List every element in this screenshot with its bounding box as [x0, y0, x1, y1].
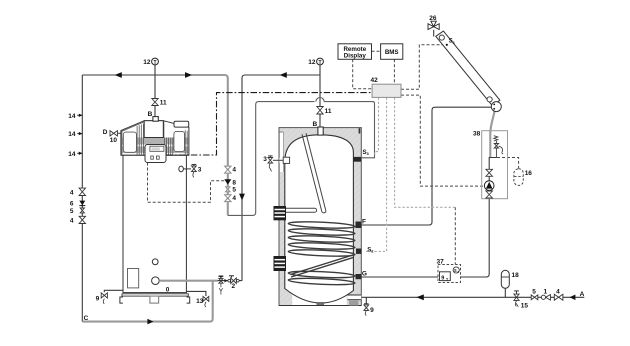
svg-text:14: 14 [68, 151, 76, 158]
svg-text:T: T [153, 60, 156, 66]
svg-text:4: 4 [70, 217, 74, 224]
svg-text:4: 4 [232, 166, 236, 173]
svg-text:8: 8 [232, 179, 236, 186]
svg-text:15: 15 [521, 303, 529, 310]
svg-text:26: 26 [429, 15, 437, 22]
svg-text:B: B [148, 111, 153, 118]
svg-text:37: 37 [437, 258, 445, 265]
svg-text:38: 38 [473, 130, 481, 137]
svg-text:5: 5 [232, 187, 236, 194]
svg-text:2: 2 [231, 283, 235, 290]
svg-text:14: 14 [68, 113, 76, 120]
svg-text:G: G [362, 270, 367, 277]
svg-text:11: 11 [325, 108, 332, 115]
svg-text:Display: Display [344, 53, 367, 60]
svg-text:6: 6 [70, 200, 74, 207]
svg-text:T: T [318, 60, 321, 66]
svg-text:1: 1 [543, 288, 547, 295]
svg-text:4: 4 [232, 195, 236, 202]
svg-text:D: D [103, 129, 108, 136]
svg-text:3: 3 [198, 166, 202, 173]
svg-text:5: 5 [70, 208, 74, 215]
svg-text:9: 9 [441, 275, 444, 281]
svg-text:0: 0 [166, 287, 170, 294]
svg-text:10: 10 [110, 137, 118, 144]
svg-text:14: 14 [68, 131, 76, 138]
svg-text:BMS: BMS [385, 49, 399, 56]
svg-text:4: 4 [556, 288, 560, 295]
svg-text:9: 9 [96, 296, 100, 303]
svg-text:4: 4 [70, 189, 74, 196]
svg-text:13: 13 [196, 298, 204, 305]
svg-text:3: 3 [263, 156, 267, 163]
svg-text:F: F [362, 218, 366, 225]
svg-text:A: A [580, 291, 585, 298]
svg-text:16: 16 [525, 170, 533, 177]
svg-text:12: 12 [143, 59, 151, 66]
svg-text:11: 11 [160, 99, 167, 106]
svg-text:18: 18 [512, 272, 520, 279]
svg-text:C: C [84, 315, 89, 322]
svg-text:B: B [312, 121, 317, 128]
svg-text:5: 5 [532, 289, 536, 296]
svg-text:12: 12 [308, 59, 316, 66]
svg-text:9: 9 [370, 307, 374, 314]
svg-text:42: 42 [371, 77, 379, 84]
